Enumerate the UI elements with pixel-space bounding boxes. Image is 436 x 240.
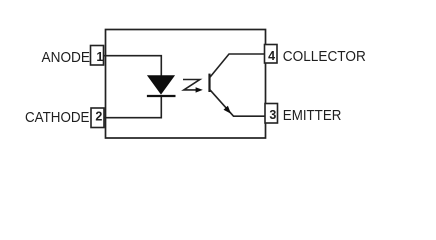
pin 3 box (265, 104, 278, 124)
LED D1 cathode bar (147, 95, 176, 97)
pin 1 box (91, 46, 104, 66)
IC body U1 (106, 30, 266, 139)
svg-text:1: 1 (96, 50, 103, 64)
wire pin2 to LED cathode (104, 96, 161, 118)
wire pin1 to LED anode (104, 56, 162, 76)
phototransistor Q1 base bar (208, 74, 210, 92)
LED D1 triangle (148, 76, 174, 94)
light emission zigzag arrow (183, 80, 200, 90)
phototransistor Q1 emitter + wire to pin 3 (210, 89, 266, 116)
pin 4 box (265, 45, 278, 64)
svg-text:CATHODE: CATHODE (25, 109, 90, 126)
pin 2 box (91, 108, 104, 128)
svg-text:ANODE: ANODE (42, 49, 91, 66)
emitter arrowhead (224, 106, 232, 114)
svg-text:3: 3 (269, 108, 276, 122)
phototransistor Q1 collector + wire to pin 4 (210, 54, 265, 78)
svg-text:EMITTER: EMITTER (283, 107, 342, 124)
svg-text:4: 4 (268, 49, 275, 63)
svg-text:2: 2 (95, 110, 102, 124)
svg-text:COLLECTOR: COLLECTOR (283, 48, 366, 65)
